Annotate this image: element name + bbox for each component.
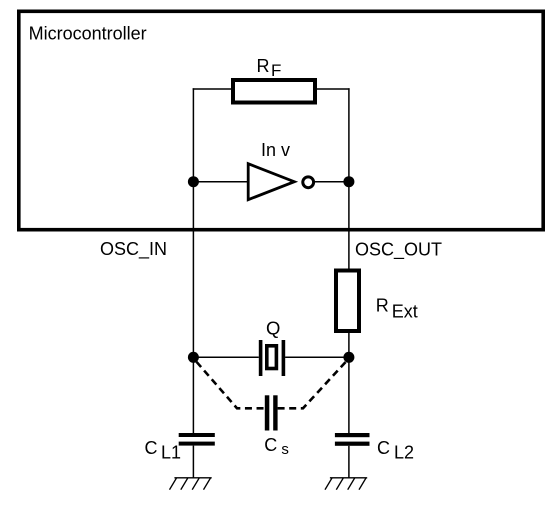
- svg-text:F: F: [271, 61, 281, 80]
- svg-text:R: R: [257, 56, 270, 76]
- svg-text:L2: L2: [394, 443, 414, 463]
- resistor R_Ext: [336, 271, 359, 332]
- op-amp inverter U1: [248, 164, 294, 200]
- svg-text:OSC_OUT: OSC_OUT: [355, 240, 442, 261]
- crystal Q right plate: [282, 340, 286, 376]
- svg-text:C: C: [377, 438, 390, 458]
- svg-text:s: s: [281, 441, 289, 458]
- wire dashed stray right: [278, 362, 346, 409]
- wire C_L1 to ground: [192, 446, 194, 478]
- wire OSC_OUT vertical lower: [348, 332, 350, 433]
- node OSC_IN junction: [188, 176, 199, 187]
- svg-text:In v: In v: [261, 140, 290, 160]
- wire OSC_OUT vertical upper: [348, 88, 350, 269]
- wire inverter input: [193, 181, 248, 183]
- svg-text:C: C: [264, 435, 277, 455]
- svg-text:L1: L1: [161, 443, 181, 463]
- node OSC_OUT junction: [343, 176, 354, 187]
- wire inverter output: [314, 181, 349, 183]
- svg-text:Ext: Ext: [392, 301, 418, 321]
- capacitor C_L1 top plate: [179, 433, 215, 437]
- wire crystal right: [285, 356, 349, 358]
- svg-text:Microcontroller: Microcontroller: [29, 24, 147, 44]
- node crystal left junction: [188, 352, 199, 363]
- capacitor C_L2 bottom plate: [335, 442, 370, 446]
- svg-text:Q: Q: [266, 318, 280, 339]
- capacitor C_L1 bottom plate: [179, 442, 215, 446]
- resistor R_F: [233, 80, 315, 103]
- svg-text:R: R: [376, 296, 389, 316]
- svg-text:C: C: [145, 438, 158, 458]
- wire R_F right horizontal: [315, 88, 350, 90]
- svg-text:OSC_IN: OSC_IN: [100, 239, 167, 260]
- wire OSC_IN vertical: [192, 88, 194, 433]
- ground right: [325, 478, 367, 490]
- capacitor C_s right plate: [273, 395, 277, 430]
- crystal Q body: [267, 346, 277, 369]
- ground left: [170, 478, 212, 490]
- wire crystal left: [193, 356, 258, 358]
- capacitor C_L2 top plate: [335, 433, 370, 437]
- capacitor C_s left plate: [265, 395, 270, 430]
- node crystal right junction: [343, 352, 354, 363]
- microcontroller box: [19, 11, 543, 229]
- wire dashed stray left: [197, 362, 265, 409]
- wire R_F left horizontal: [193, 88, 233, 90]
- inverter bubble: [303, 177, 314, 188]
- wire C_L2 to ground: [348, 446, 350, 478]
- crystal Q left plate: [259, 340, 263, 376]
